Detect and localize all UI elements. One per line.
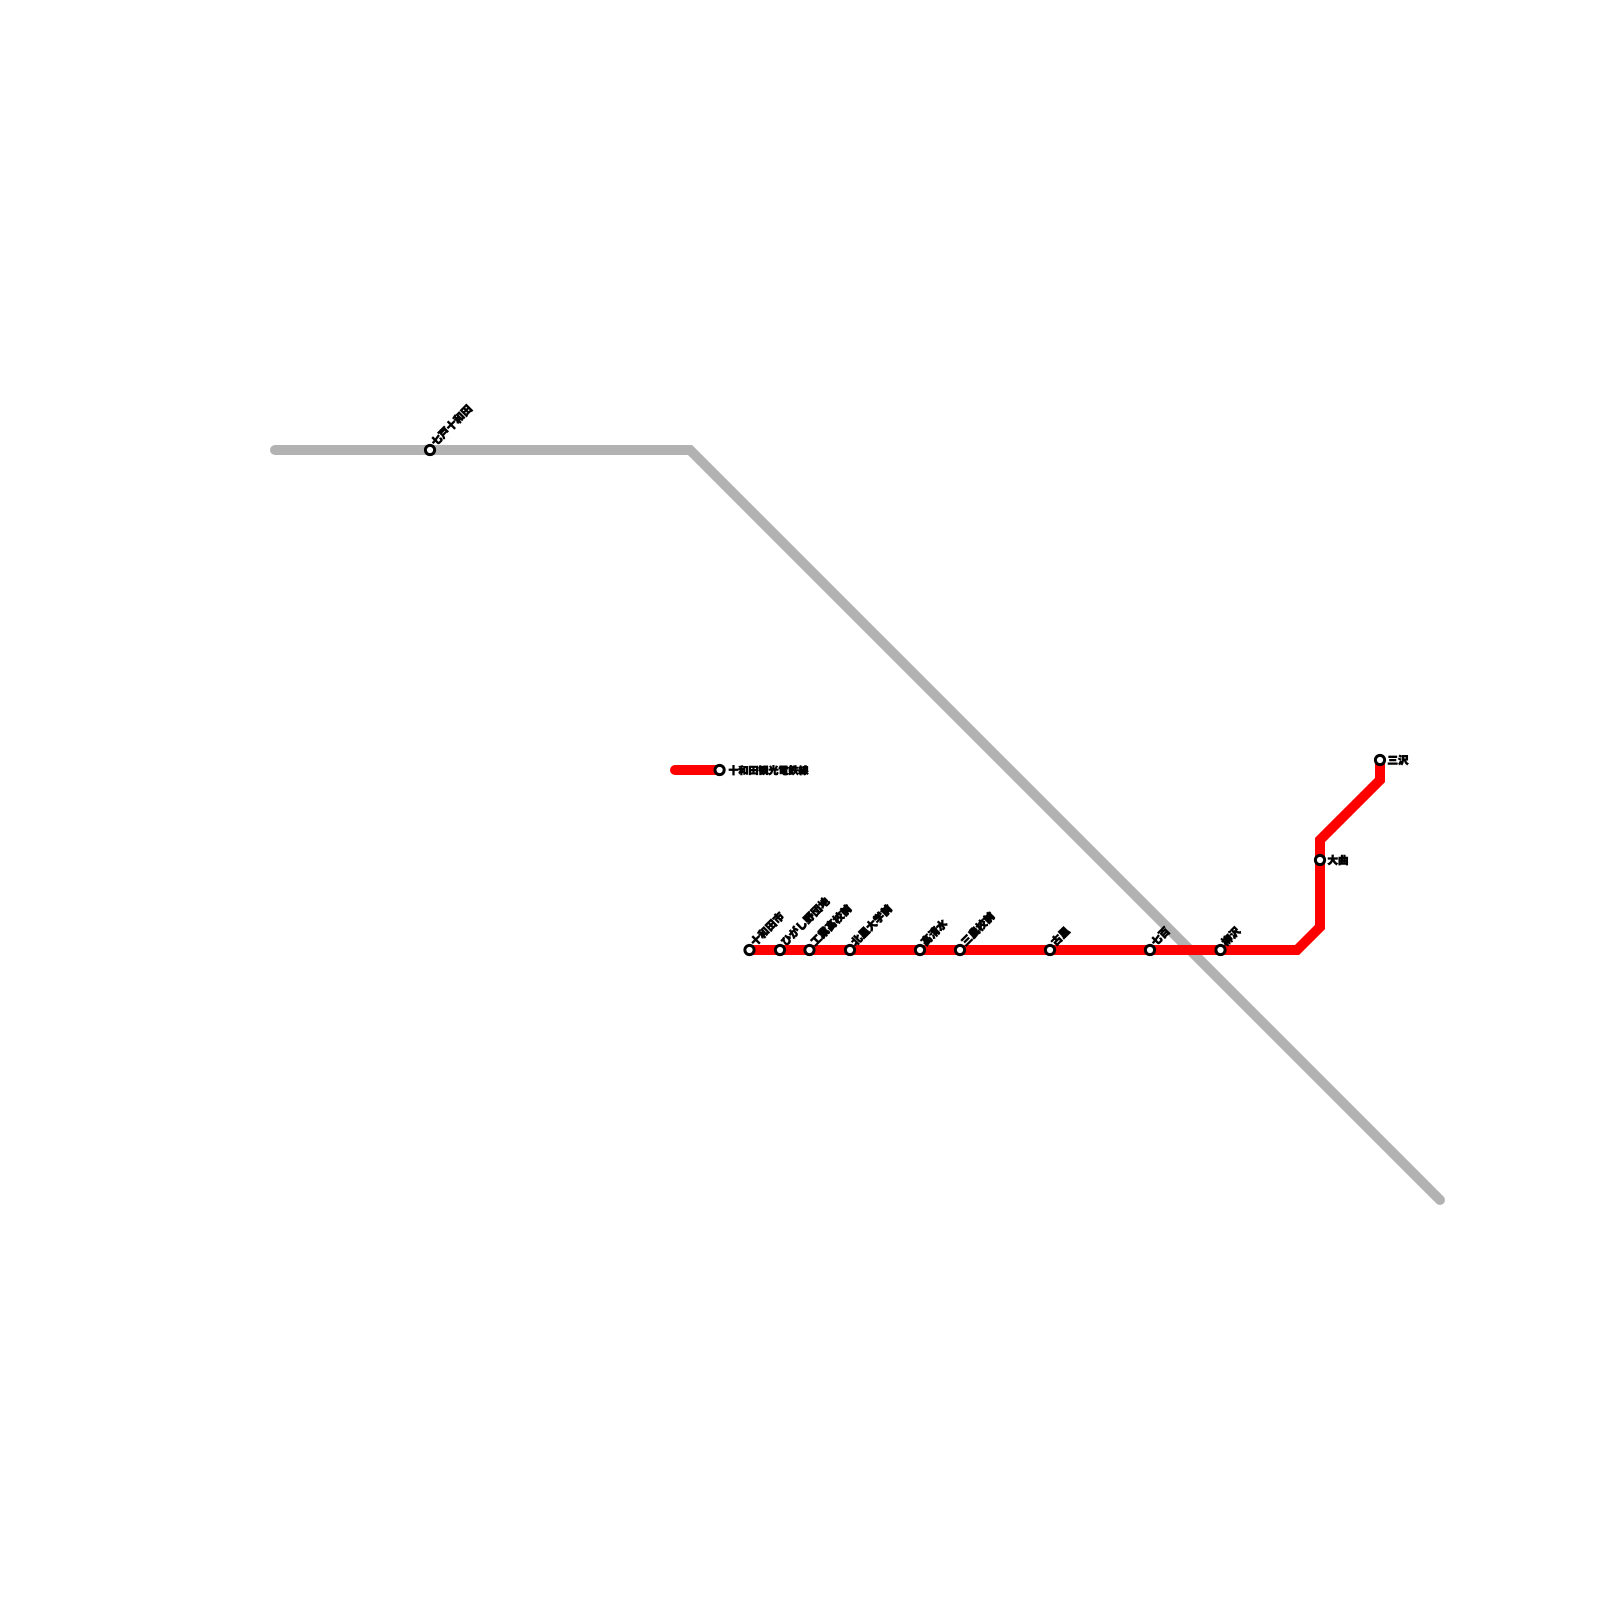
gray line: Tohoku Shinkansen — [275, 450, 1440, 1200]
station Omagari — [1315, 855, 1347, 865]
station Sanno-ko-mae — [955, 911, 995, 955]
station Misawa — [1375, 755, 1408, 765]
station Shichihyaku — [1145, 926, 1170, 955]
legend label: Towada Kanko Dentetsu Line — [729, 765, 808, 775]
station Towadashi — [745, 911, 785, 955]
station Yanagisawa — [1216, 925, 1242, 954]
station Kogyo-koko-mae — [805, 903, 853, 954]
red line: Towada Kanko Electric Railway — [750, 760, 1380, 950]
legend line sample — [675, 765, 715, 775]
station Takashimizu — [915, 918, 948, 955]
station Shichinohe-Towada (gray line) — [425, 404, 473, 455]
station Higashino-danchi — [775, 896, 830, 955]
legend station symbol — [715, 765, 724, 774]
station Kitasato-daigaku-mae — [845, 903, 893, 954]
station Furusato — [1045, 926, 1070, 955]
